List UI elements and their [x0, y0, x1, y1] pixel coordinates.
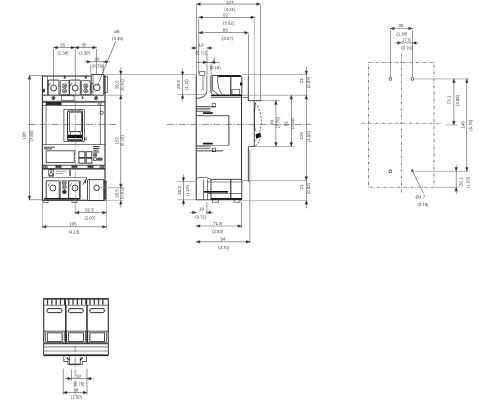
- svg-text:146: 146: [461, 121, 466, 129]
- svg-text:(1.50): (1.50): [71, 395, 83, 400]
- svg-text:(2.83): (2.83): [212, 229, 224, 234]
- svg-text:35: 35: [81, 43, 87, 48]
- svg-text:(3.62): (3.62): [223, 21, 235, 26]
- svg-text:(2.07): (2.07): [85, 215, 97, 220]
- svg-text:(0.19): (0.19): [418, 202, 430, 207]
- svg-text:Ø4.7: Ø4.7: [416, 195, 426, 200]
- svg-text:(5.75): (5.75): [468, 119, 473, 131]
- svg-text:3VA: 3VA: [97, 102, 102, 106]
- svg-text:18: 18: [198, 43, 204, 48]
- svg-text:20: 20: [94, 57, 100, 62]
- svg-text:35: 35: [398, 23, 404, 28]
- svg-text:(0.35): (0.35): [112, 36, 124, 41]
- svg-text:(4.96): (4.96): [306, 130, 311, 142]
- svg-text:SIEMENS: SIEMENS: [47, 103, 61, 106]
- svg-text:38: 38: [73, 387, 79, 392]
- svg-text:(1.10): (1.10): [185, 185, 190, 197]
- svg-text:(1.03): (1.03): [466, 176, 471, 188]
- svg-text:18: 18: [199, 207, 205, 212]
- svg-text:(0.70): (0.70): [401, 45, 413, 50]
- svg-text:81: 81: [284, 121, 289, 127]
- svg-text:28.3: 28.3: [177, 186, 182, 195]
- svg-text:(1.38): (1.38): [58, 51, 70, 56]
- svg-text:(3.19): (3.19): [290, 117, 295, 129]
- svg-text:ø9: ø9: [114, 29, 120, 34]
- svg-text:(0.71): (0.71): [196, 50, 208, 55]
- svg-text:21: 21: [299, 78, 304, 84]
- svg-text:83: 83: [223, 28, 229, 33]
- svg-text:(3.27): (3.27): [222, 36, 234, 41]
- svg-text:(0.71): (0.71): [195, 215, 207, 220]
- svg-text:(2.88): (2.88): [455, 94, 460, 106]
- svg-text:(1.11): (1.11): [184, 79, 189, 90]
- svg-text:(0.79): (0.79): [92, 64, 104, 69]
- svg-text:(0.83): (0.83): [306, 182, 311, 194]
- svg-text:(6.18): (6.18): [119, 135, 124, 147]
- svg-text:19: 19: [76, 373, 82, 378]
- svg-text:126: 126: [299, 132, 304, 140]
- svg-text:(2.76): (2.76): [276, 116, 281, 128]
- svg-text:(4.13): (4.13): [69, 229, 81, 234]
- svg-text:94: 94: [220, 237, 226, 242]
- svg-text:(1.38): (1.38): [79, 51, 91, 56]
- svg-text:4: 4: [213, 57, 216, 62]
- svg-text:105: 105: [69, 221, 77, 226]
- svg-text:26.1: 26.1: [458, 177, 463, 186]
- svg-text:107: 107: [226, 0, 234, 5]
- svg-text:(0.83): (0.83): [306, 76, 311, 88]
- svg-text:35: 35: [60, 43, 66, 48]
- svg-text:17.8: 17.8: [402, 37, 411, 42]
- svg-text:92: 92: [223, 12, 229, 17]
- svg-text:(0.81): (0.81): [119, 187, 124, 199]
- svg-text:73.1: 73.1: [447, 95, 452, 104]
- svg-text:(0.81): (0.81): [119, 79, 124, 91]
- svg-text:70: 70: [269, 120, 274, 126]
- svg-text:21: 21: [299, 184, 304, 190]
- svg-text:(1.38): (1.38): [396, 31, 408, 36]
- svg-text:(7.80): (7.80): [29, 130, 34, 142]
- svg-text:(0.16): (0.16): [210, 65, 222, 70]
- svg-text:52.5: 52.5: [85, 207, 94, 212]
- svg-text:(3.70): (3.70): [218, 245, 230, 250]
- svg-text:28.3: 28.3: [176, 80, 181, 89]
- svg-text:198: 198: [22, 132, 27, 140]
- svg-text:(0.75): (0.75): [74, 381, 86, 386]
- svg-text:71.8: 71.8: [213, 221, 222, 226]
